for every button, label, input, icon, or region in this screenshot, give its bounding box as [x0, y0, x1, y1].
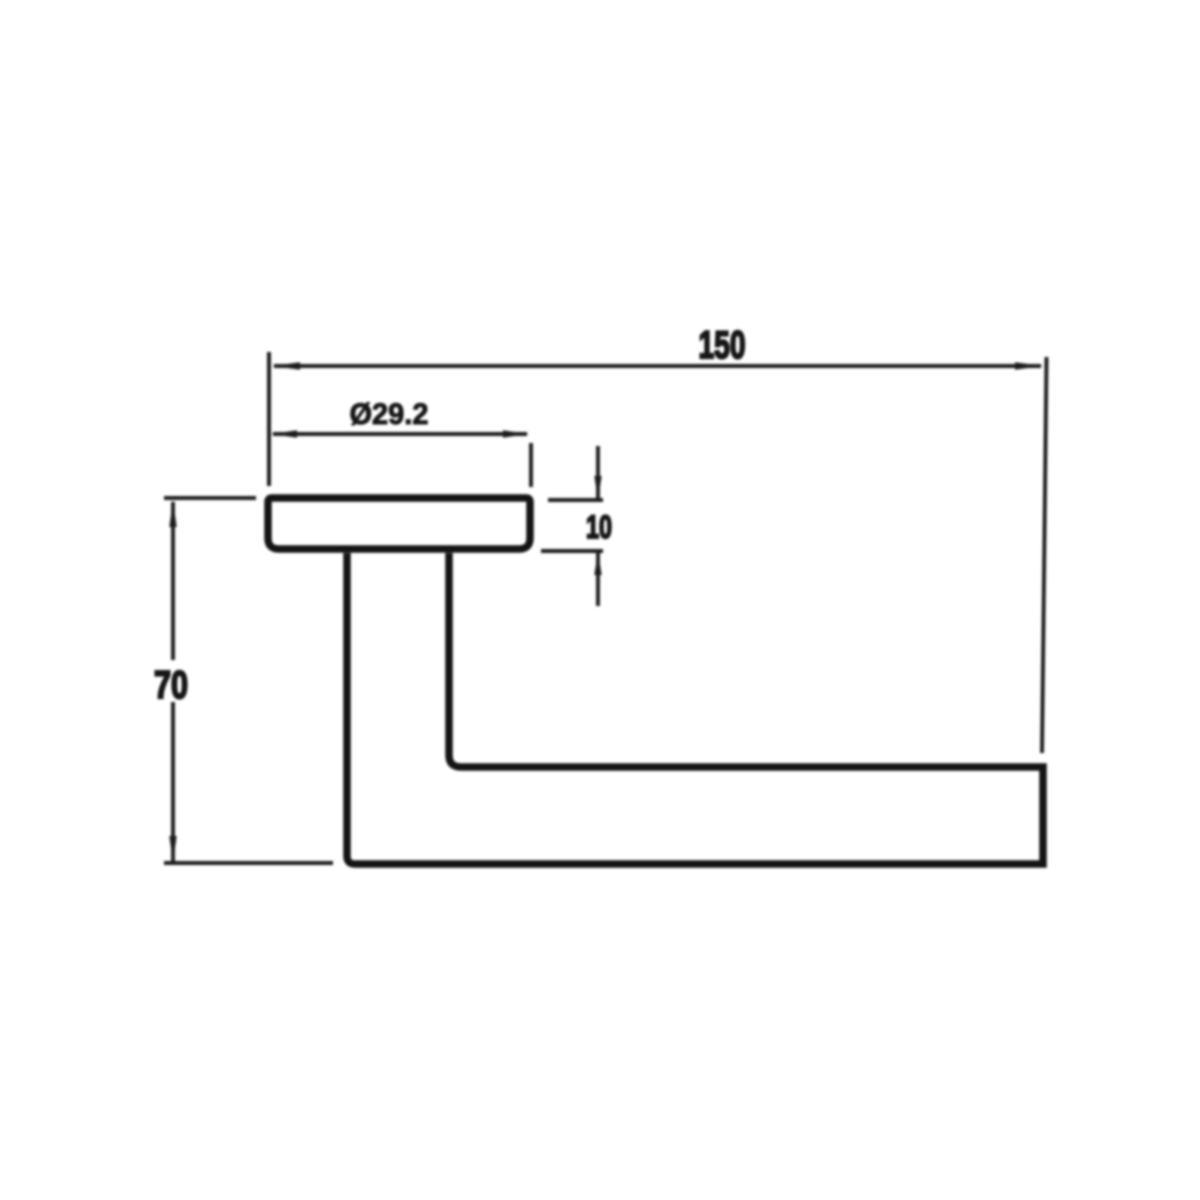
- dimension 150 right arrowhead: [1015, 362, 1043, 369]
- svg-text:10: 10: [586, 509, 612, 545]
- dimension 70 line lower segment: [171, 702, 175, 861]
- dimension 70 bottom arrowhead: [169, 836, 176, 863]
- rose plate (side view): [268, 498, 530, 549]
- svg-text:70: 70: [154, 664, 188, 707]
- extension line bottom of 70: [164, 861, 333, 865]
- dimension 150 left arrowhead: [272, 362, 300, 369]
- handle lever (stem and arm outline): [347, 553, 1043, 864]
- dimension 10 top tick: [548, 498, 603, 502]
- dimension Ø29.2 right arrowhead: [503, 430, 529, 437]
- dimension 70 top arrowhead: [169, 500, 176, 527]
- dimension 10 bottom tick: [541, 549, 603, 553]
- dimension 10 lower arrow line: [596, 553, 600, 606]
- dimension Ø29.2 line: [273, 432, 527, 436]
- dimension 70 line upper segment: [171, 502, 175, 660]
- svg-text:150: 150: [699, 324, 746, 367]
- extension line left (serves 150 and Ø29.2): [267, 352, 271, 486]
- dimension Ø29.2 left arrowhead: [271, 430, 297, 437]
- extension line right of Ø29.2: [529, 443, 533, 487]
- svg-text:Ø29.2: Ø29.2: [350, 398, 429, 431]
- dimension 10 upper arrow line: [596, 446, 600, 498]
- extension line right of 150 (down to lever end): [1042, 357, 1047, 753]
- extension line top of 70: [164, 496, 256, 500]
- dimension 150 line: [274, 364, 1041, 368]
- dimension 10 lower arrowhead pointing up: [594, 552, 601, 575]
- dimension 10 upper arrowhead pointing down: [594, 476, 601, 499]
